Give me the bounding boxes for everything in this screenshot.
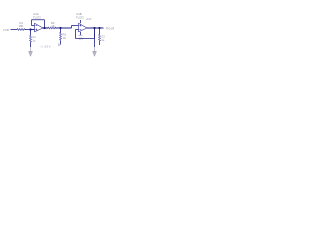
wire node A to U1A non-inverting input [31, 28, 35, 31]
wire U1B V- power pin stub [79, 32, 82, 36]
wire R2 to node B [55, 26, 71, 30]
junction output U1A dot [43, 27, 45, 29]
wire U1B output [87, 26, 104, 30]
wire U1B feedback right vertical up to output [93, 28, 96, 39]
wire U1A output to R2 [43, 26, 49, 30]
resistor R2 [48, 27, 56, 29]
wire node B down to R3 [59, 28, 62, 33]
wire node C down to ground [93, 28, 96, 47]
wire VCB to R1 [11, 28, 17, 31]
svg-text:-1.65V: -1.65V [40, 45, 51, 49]
wire jog to U1B non-inverting input [72, 24, 79, 27]
op-amp U1A [35, 23, 44, 32]
wire U1B V+ power pin stub [79, 20, 82, 23]
power bar V- [79, 34, 83, 36]
capacitor C2 (vertical zigzag body) [99, 34, 101, 42]
wire C1 to ground [29, 43, 32, 48]
resistor R1 [16, 29, 26, 31]
wire U1B inverting input stub [76, 28, 79, 31]
junction node A dot [29, 28, 31, 30]
wire U1B feedback left vertical [74, 30, 77, 39]
junction node C dot [93, 27, 95, 29]
capacitor C1 (small vertical zigzag body) [30, 35, 32, 43]
ground (left, below C1) [28, 52, 33, 57]
wire U1A feedback left vertical [30, 20, 33, 26]
wire node A down to C1 [29, 30, 32, 36]
ground (right, below node C) [92, 52, 97, 57]
wire C2 bottom stub [98, 42, 101, 46]
wire R1 to node A [25, 28, 34, 31]
resistor R3 (vertical) [60, 32, 62, 41]
wire U1B feedback bottom [76, 37, 95, 40]
svg-text:Vout: Vout [106, 26, 115, 30]
junction node B dot [59, 27, 61, 29]
wire R3 to -1.65 flag [59, 41, 62, 45]
wire U1A feedback top [32, 18, 45, 21]
wire node D down to C2 [98, 28, 101, 34]
junction node D dot [98, 27, 100, 29]
wire U1A feedback right vertical to output [43, 20, 46, 28]
node -1.65 power flag [58, 44, 60, 46]
wire node B to U1B jog [70, 26, 73, 29]
svg-text:VCB: VCB [3, 28, 9, 32]
op-amp U1B [79, 23, 88, 32]
wire U1A inverting input stub [32, 24, 35, 27]
svg-text:+12V: +12V [86, 18, 92, 21]
